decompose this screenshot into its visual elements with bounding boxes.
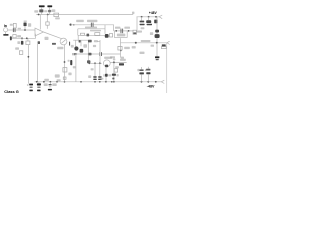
neg filter cap 2 stem up [147,67,149,69]
driver tie wire top [73,39,88,41]
center column down [75,54,77,82]
label smudge above bar [120,59,126,61]
label smudge lower left [68,73,71,76]
input coupling cap plate 2 [14,28,17,32]
cap C9 plate 2 [121,29,124,34]
filter cap D plate bottom [140,24,145,26]
transistor Q4 blob [155,34,160,38]
bottom mid smudge a [103,74,105,76]
wire from +48 rail down left [136,17,138,30]
label smudge diode row [136,31,142,33]
svg-text:+48V: +48V [149,11,158,15]
load ground bar 2 [156,59,159,60]
sense resistor dark bar [52,43,56,45]
label box above feedback wire [13,35,16,38]
tiny label above bias blob [24,21,27,22]
resistor box mid 2 [95,33,100,36]
label smudge under transistor circle [57,47,63,49]
label smudge stack3 left [44,83,48,86]
neg filter cap 1 stem down [141,74,143,81]
rail dot F [155,16,157,18]
driver label dark [88,40,92,43]
Q5 node dot [113,61,115,63]
stack 2 stem [38,82,40,84]
current source circle Q5 [103,60,110,67]
zener blob under dot F [154,20,157,24]
label smudge above rail [44,79,49,81]
decoupling cap stack 1 plate [29,84,33,86]
bottom mid smudge row2 [100,78,103,80]
cap G2 plate bottom [98,79,101,80]
label smudge C1 [10,24,13,26]
label smudge right under feedback [121,57,124,59]
Q5 bottom stem [105,67,107,82]
wire below resistor box [46,25,48,29]
bias network box on column [63,68,67,72]
op-amp supply pin wire [39,15,41,30]
small dark blob on tie [79,40,81,42]
corner down from top wire [105,25,114,31]
bottom mid dark row2 [112,78,114,80]
junction dot signal 2 [128,30,130,32]
transistor Q7 blob [80,49,84,53]
feedback wire [11,34,35,39]
label smudge under cap [73,66,76,68]
rail dot g10 [147,81,149,83]
faint right border segment [166,43,168,93]
cap G1 plate top [93,76,96,77]
label smudge above top wire right [87,20,97,22]
small box on vertical [114,69,117,72]
+48V terminal chevron [159,15,162,19]
input ground bar [3,34,8,36]
resistor feed to op-amp supply [46,15,48,22]
stub below bend [77,35,79,40]
output terminal chevron [167,41,170,44]
filter cap D plate top [140,21,145,23]
cap leg 1 [94,63,96,76]
label smudge inside loop [117,34,125,37]
rail dot g7 [105,81,107,83]
label smudge left of column [55,74,60,77]
decoupling cap stack 3 plate [49,84,52,85]
rail end mark [132,12,134,14]
box right of Q2 [109,34,112,37]
junction dot signal [115,30,117,32]
output node dot right [156,42,158,44]
label smudge left of driver [71,45,74,48]
comparator loop right vertical [126,31,128,38]
label smudge above feedback wire [17,35,21,37]
junction dot input [24,29,26,31]
neg filter cap 2 plate bottom [146,72,150,74]
svg-text:-48V: -48V [147,85,155,89]
transistor Q2 circle [60,38,67,45]
label smudge zobel [140,52,145,54]
label smudge above output wire [141,40,151,42]
dark blob on mid wire [87,34,90,37]
load leg down [156,43,158,57]
small cap box on column [63,77,66,79]
label smudge top right mid a [94,40,98,42]
filter cap E plate bottom [147,24,152,26]
level shift dark half [133,32,136,34]
label smudge left of cap leg [91,68,94,70]
label smudge left stub [113,59,115,61]
label smudge near col64 [57,79,61,81]
label smudge above signal wire b [124,27,130,29]
negative rail wire [35,81,162,83]
rail junction dot C [47,14,49,16]
right mid vertical [99,40,101,63]
plus smudge left of cap [68,60,70,62]
output transistor column wire [156,17,158,43]
feedback resistor dark blob [21,41,24,45]
level shift box right [133,30,137,34]
label smudge left of dark resistor [17,41,20,44]
cap tick left of node b [73,53,76,55]
label smudge left of caps [88,75,91,78]
input source circle [4,28,8,32]
feedback dot 1 [21,37,23,39]
feedback wire horizontal [102,53,121,55]
label smudge under cap D [141,27,145,29]
feedback node dot [28,56,30,58]
output node dot left [135,42,137,44]
stack 2 ground bar [37,90,40,92]
label smudge right of bias resistor [28,23,31,26]
driver mid vertical [80,40,82,46]
label smudge top right mid b [93,45,96,47]
op-amp U1 triangle [35,28,44,36]
neg filter cap 1 plate top [139,69,143,71]
stack 3 plate 2 [49,86,52,87]
bias bend vertical [77,29,79,36]
cap stem D [141,17,143,21]
mid low dot 3 [99,62,101,64]
stack 2 plate 2 [37,87,40,88]
plus smudge stack1 [27,84,29,86]
label smudge driver mid [83,44,87,48]
stack 3 ground bar [48,89,52,91]
bottom mid blob 2 [112,74,116,76]
comparator loop left vertical [113,31,115,38]
label text smudge between flags [44,10,47,12]
supply flag bar +15V [47,5,52,7]
neg filter cap 1 plate bottom [139,72,144,74]
svg-text:In: In [4,24,7,28]
feedback vertical to output [120,38,122,57]
second stage node dot big [69,23,71,25]
rail dot g9 [141,81,143,83]
compensation cap small box [19,51,22,55]
+35V rail wire [36,14,133,16]
input source stem [5,32,7,34]
second stage top wire [71,24,105,26]
label smudge near column top [45,37,49,40]
label smudge below output b [132,46,136,48]
stack 1 ground bar [29,90,32,92]
+48V rail wire [137,16,160,18]
cap G1 plate bottom [93,79,96,80]
supply flag stem left [41,7,43,14]
bottom mid smudge b [108,74,111,76]
dark bar component right [119,63,124,65]
driver left vertical [75,40,77,46]
speaker box [161,47,166,49]
label text smudge left of flag [34,10,38,12]
mid low dot 2 [94,62,96,64]
rail dot g8b [113,81,115,83]
tick at top of right mid vertical [97,41,100,43]
rail dot g2 [43,81,45,83]
cap C4 plate 2 [92,23,95,27]
Q5 dark bottom blob [105,65,108,68]
supply flag bar +35V left [39,5,45,7]
resistor box R supply [46,22,49,25]
tiny label on input wire [18,28,21,30]
vertical from top wire to mid [104,25,106,34]
label smudge left of Q3 [150,32,153,35]
cap C9 plate 1 [120,29,123,34]
center node dot [75,53,77,55]
stack 3 stem [49,82,51,84]
cap stem E [148,17,150,20]
signal wire right mid [114,30,134,32]
label smudge L1 [151,45,154,47]
label smudge below bias wire [90,30,101,32]
label smudge stack3 right [52,83,56,86]
fuse box on rail [54,13,59,17]
Q5 output wire [110,61,126,63]
output wire [121,42,168,44]
transistor Q2 inner tick [62,40,66,43]
column junction dot [64,61,66,63]
dark label on center wire [88,53,91,56]
label smudge above signal wire [115,27,120,29]
transistor Q2 dark blob [105,34,109,38]
load ground bar 1 [155,56,159,58]
label smudge 22k [15,47,19,49]
neg filter cap 1 stem up [141,67,143,69]
transistor Q8 blob [87,60,90,63]
transistor Q3 blob [155,30,159,33]
cap C4 plate 1 [90,23,93,27]
mid low dot 1 [88,62,90,64]
rail dot g1 [36,81,38,83]
transistor Q6 round blob [74,46,78,50]
ground reference vertical wire [36,44,38,82]
mid wire [78,34,105,36]
bottom mid cluster blob 1 [105,74,108,77]
rail dot E [148,16,150,18]
label smudge below output a [124,47,130,49]
label text smudge above fuse box [52,9,56,12]
feedback dot 2 [26,37,28,39]
rail dot g8 [111,81,113,83]
label smudge R small [115,66,119,68]
feedback junction mark [120,50,121,51]
supply flag stem right [49,7,51,14]
plus smudge neg caps [137,69,139,71]
stack 1 plate 2 [30,87,33,88]
vas column wire [64,45,66,82]
op-amp output diagonal wire [44,32,63,39]
filter cap E plate top [146,20,151,23]
label +35V dark [39,9,43,12]
feedback input cap oval [10,36,12,40]
cap tick left of node a [72,53,75,55]
label text smudge under right flag [48,10,51,12]
rail dot g3 [50,81,52,83]
stem to resistor box [27,38,29,41]
mid low wire [89,62,102,64]
label smudge above bias wire [85,27,97,29]
rail junction dot A [38,14,40,16]
rail dot g6 [99,81,101,83]
smudge between neg caps [145,69,146,71]
label smudge under feedback wire [110,56,115,58]
cap C plate 2 on center wire [100,52,103,56]
rail dot g11 [155,81,157,83]
electrolytic cap blob left [70,60,72,65]
negative rail chevron [161,80,164,83]
vertical from node down [113,62,115,81]
dark tick left of ladder [69,42,70,46]
bias bend horizontal top [78,28,105,30]
input wire [8,29,35,31]
resistor box mid 1 [81,33,85,35]
feedback resistor box [26,41,30,45]
small box below output left [118,46,122,50]
driver right vertical [87,40,89,60]
neg filter cap 2 stem down [147,74,149,82]
bottom mid smudge c [117,74,119,76]
column to rail dot [64,81,66,83]
stem to dark resistor [21,38,23,41]
rail dot g4 [80,81,82,83]
rail dot g5 [94,81,96,83]
decoupling cap stack 2 plate [37,83,41,85]
bias resistor dark blob [24,23,27,27]
second stage node dot small [73,24,75,26]
rail dot D [141,16,143,18]
comparator loop bottom wire [114,37,127,39]
label smudge above Q5 [104,57,112,59]
bias resistor stem [24,26,26,30]
cap leg 2 [99,63,101,76]
svg-text:Class G: Class G [4,89,18,94]
cap C plate 1 on center wire [98,52,101,56]
cap G2 plate top [98,76,101,77]
center wire [76,53,100,55]
input coupling cap plate 1 [12,28,15,32]
neg filter cap 2 plate top [146,69,150,71]
small blob right of boxes [38,41,40,44]
speaker dark blob [162,44,166,46]
feedback leg wire down [27,45,29,84]
rail dot g3b [56,81,58,83]
label under fuse box [55,17,60,19]
label frame next to C1 [13,23,16,28]
label smudge above top wire left [76,20,84,22]
